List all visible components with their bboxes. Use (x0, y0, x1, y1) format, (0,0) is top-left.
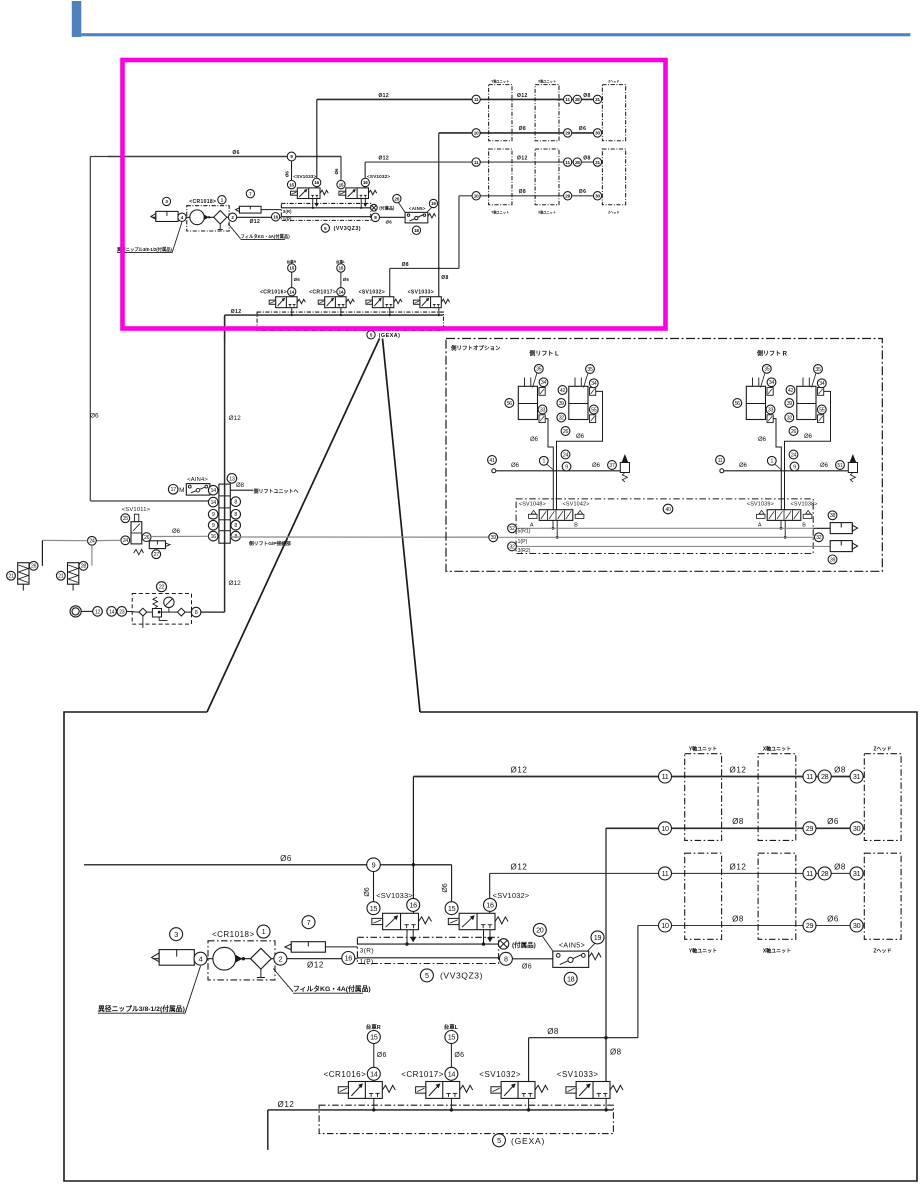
svg-text:41: 41 (489, 458, 495, 464)
valve stub to bus (373, 1098, 375, 1110)
wire: riser to bottom valve SV1032 (389, 268, 391, 296)
svg-text:Ø6: Ø6 (364, 887, 371, 896)
accessory plug X-circle (371, 204, 378, 211)
svg-text:Ø6: Ø6 (377, 1052, 387, 1059)
muffler upper lift (830, 523, 852, 534)
svg-text:35: 35 (815, 367, 821, 373)
node 34 cyl1 (767, 378, 776, 387)
svg-text:X軸ユニット: X軸ユニット (763, 948, 791, 955)
svg-text:Ø8: Ø8 (583, 93, 591, 99)
node 11 row1 left (659, 770, 672, 783)
wire: riser row4 down (458, 196, 460, 269)
node 39 cyl (557, 399, 566, 408)
svg-text:Y軸ユニット: Y軸ユニット (491, 209, 509, 214)
svg-text:31: 31 (595, 160, 600, 165)
wire inlet (496, 470, 621, 472)
svg-text:21: 21 (8, 574, 14, 580)
junction row2-riser x link (438, 267, 440, 269)
node 31 row3 (850, 867, 863, 880)
svg-text:15: 15 (370, 1033, 378, 1042)
svg-text:Ø8: Ø8 (402, 262, 409, 268)
node 20 (393, 194, 401, 202)
wire SV1011 to manifold 16 (151, 535, 208, 537)
svg-text:11: 11 (662, 869, 669, 878)
solenoid valve CR1016 bottom bank (276, 297, 297, 308)
wire: link y1037 Ø8 (529, 1037, 638, 1039)
node 3 (162, 197, 170, 205)
svg-text:24: 24 (563, 452, 569, 458)
svg-text:11: 11 (565, 160, 570, 165)
svg-text:9: 9 (793, 464, 796, 470)
solenoid valve SV1032 bottom bank (501, 1082, 535, 1099)
svg-text:31: 31 (595, 97, 600, 102)
wire node8 to AIN5 (380, 216, 406, 218)
node 14 (367, 1067, 380, 1080)
svg-text:33: 33 (768, 407, 774, 413)
svg-text:Ø8: Ø8 (834, 863, 846, 872)
node 26 cyl left (29, 561, 38, 570)
node 16 manifold P inlet (342, 952, 355, 965)
svg-text:Ø6: Ø6 (334, 168, 339, 175)
svg-text:Zヘッド: Zヘッド (873, 949, 891, 955)
node 14 manifold row1 (208, 485, 218, 495)
svg-text:30: 30 (595, 193, 600, 198)
manifold VV3QZ3 dash-dot box (281, 203, 370, 220)
node 28 row1 (818, 770, 831, 783)
svg-text:56: 56 (735, 401, 741, 407)
svg-text:11: 11 (718, 458, 723, 464)
node 52 rail A (508, 524, 517, 533)
valve stub to bus (605, 1098, 607, 1110)
pressure switch AIN4 (186, 484, 210, 496)
valve stub to bus (389, 308, 391, 315)
svg-text:Ø8: Ø8 (732, 915, 744, 924)
node 30 row4 (593, 192, 601, 200)
inlet port circle (492, 469, 496, 473)
svg-text:15: 15 (448, 1033, 456, 1042)
wire Ø8 to side lift unit (230, 489, 253, 491)
svg-text:37: 37 (609, 463, 615, 469)
svg-text:側リフト R: 側リフト R (756, 350, 788, 358)
svg-text:9: 9 (565, 464, 568, 470)
node 42 (786, 386, 795, 395)
svg-text:Ø6: Ø6 (739, 463, 748, 469)
node 35b (586, 365, 595, 374)
valve stub to bus (528, 1098, 530, 1110)
node 1 lift (767, 456, 776, 465)
X-axis unit box lower (758, 853, 796, 939)
svg-text:32: 32 (787, 415, 793, 421)
svg-text:台車L: 台車L (444, 1023, 459, 1031)
svg-text:14: 14 (339, 289, 344, 294)
svg-text:8: 8 (234, 523, 237, 529)
svg-text:28: 28 (81, 564, 87, 570)
wire inlet (724, 470, 849, 472)
node 26 wl (561, 427, 570, 436)
speed controller upper (590, 388, 596, 396)
svg-text:7: 7 (307, 918, 311, 927)
svg-text:33: 33 (540, 407, 546, 413)
wire work line B (557, 391, 603, 509)
svg-text:32: 32 (816, 535, 822, 541)
node 11 row3 right (803, 867, 816, 880)
svg-text:Ø12: Ø12 (378, 156, 389, 162)
wire work line A (773, 419, 781, 510)
svg-text:Ø6: Ø6 (280, 854, 292, 863)
node 30 row2 (593, 129, 601, 137)
solenoid valve CR1017 bottom bank (426, 1082, 460, 1099)
callout diagonal right (383, 339, 421, 713)
wire: link y1037 Ø8 (390, 267, 459, 269)
node 7 (302, 916, 315, 929)
wire: row1 Ø12 line (317, 98, 602, 101)
valve SV1033 port stubs (406, 930, 408, 944)
callout diagonal left (207, 339, 380, 713)
node 29 row2 (803, 822, 816, 835)
lift cylinder (569, 386, 588, 419)
node 40 center (663, 504, 673, 514)
svg-text:26: 26 (563, 429, 569, 435)
junction dot after regulator (208, 216, 210, 218)
svg-text:39: 39 (491, 535, 497, 541)
svg-text:フィルタKG・4A(付属品): フィルタKG・4A(付属品) (293, 984, 371, 993)
Z-head box upper (602, 85, 625, 141)
svg-text:16: 16 (314, 180, 319, 185)
check component node7 (291, 942, 325, 953)
node 41 (488, 456, 497, 465)
svg-text:13: 13 (229, 476, 235, 482)
wire: Ø12 bus line (268, 1109, 613, 1111)
svg-text:1(P): 1(P) (518, 539, 528, 545)
node 28 row1 (573, 95, 581, 103)
svg-text:10: 10 (661, 824, 669, 833)
svg-text:3(R): 3(R) (283, 209, 292, 214)
node 15 (367, 1031, 380, 1044)
svg-text:42: 42 (560, 388, 566, 394)
node 28 row3 (818, 867, 831, 880)
node 8 FRL outlet (191, 607, 201, 617)
regulator unit CR1018 box (208, 941, 275, 980)
valve SV1032 port stubs (483, 930, 485, 944)
svg-text:11: 11 (474, 97, 479, 102)
svg-text:5: 5 (497, 1136, 501, 1145)
wire: row3 Ø12 line (490, 872, 864, 874)
spring cylinder left (18, 563, 29, 585)
node 17 (168, 485, 178, 495)
svg-text:Ø6: Ø6 (827, 915, 839, 924)
svg-text:22: 22 (159, 585, 165, 591)
node 9 manifold row3 (208, 510, 218, 520)
node 20 (533, 923, 546, 936)
svg-text:25: 25 (123, 516, 129, 522)
speed controller lower (539, 415, 545, 423)
node 32 cyl (557, 413, 566, 422)
filter diamond (251, 948, 272, 969)
node 7 (246, 189, 254, 197)
wire node24 to cylinders (96, 539, 121, 541)
wire: row3 Ø12 line (365, 161, 602, 163)
svg-text:<SV1032>: <SV1032> (479, 1070, 521, 1079)
solenoid valve SV1032 on manifold (459, 913, 495, 929)
svg-text:側リフト L: 側リフト L (528, 350, 559, 358)
wire: row4 Ø8 line (459, 195, 602, 197)
Z-head box upper (864, 754, 901, 841)
solenoid valve CR1016 bottom bank (348, 1082, 382, 1099)
wire: riser row2 to bottom valve SV1033 (438, 133, 440, 297)
svg-text:19: 19 (431, 201, 436, 206)
valve stub to bus (291, 308, 293, 315)
Y-axis unit box upper (685, 754, 722, 841)
svg-text:24: 24 (791, 452, 797, 458)
svg-text:<SV1042>: <SV1042> (563, 502, 590, 508)
node 1 (218, 196, 226, 204)
svg-text:Ø6: Ø6 (530, 437, 539, 443)
svg-text:<CR1016>: <CR1016> (260, 290, 287, 296)
svg-text:24: 24 (89, 539, 95, 545)
wire stub to node 15 (340, 272, 342, 297)
wire: main air line (Ø6) horizontal (108, 155, 341, 157)
svg-text:15: 15 (339, 266, 344, 271)
speed controller upper (767, 388, 773, 396)
junction row2-riser x link (604, 1036, 607, 1039)
svg-text:56: 56 (507, 401, 513, 407)
node 30 row2 (850, 822, 863, 835)
header horizontal rule (81, 33, 910, 36)
wire: stub node9 to SV1033 port15 (291, 156, 293, 182)
svg-text:Ø6: Ø6 (579, 189, 587, 195)
svg-text:1: 1 (771, 459, 774, 465)
relief valve (848, 463, 857, 473)
svg-text:<AIN5>: <AIN5> (409, 206, 426, 211)
svg-text:A: A (758, 523, 762, 529)
inlet port circle (720, 469, 724, 473)
svg-text:Zヘッド: Zヘッド (608, 210, 619, 214)
wire: supply line y958.7 (152, 216, 282, 218)
node 21 left (7, 571, 16, 580)
junction dots on galleries (405, 942, 408, 945)
wire: stub down to SV1032 port15 (451, 865, 453, 905)
svg-text:15: 15 (448, 904, 456, 913)
X-axis unit box upper (535, 85, 559, 141)
node 9 on main line (287, 152, 296, 161)
node 55 cyl2 (589, 405, 598, 414)
svg-text:Ø8: Ø8 (583, 156, 591, 162)
node 4 (194, 952, 207, 965)
wire stub to node 15 (373, 1044, 375, 1082)
svg-text:32: 32 (509, 544, 515, 550)
FRL regulator (152, 609, 161, 618)
svg-text:Ø8: Ø8 (236, 483, 245, 489)
svg-text:18: 18 (414, 228, 419, 233)
svg-text:1: 1 (543, 459, 546, 465)
svg-text:30: 30 (853, 921, 861, 930)
svg-text:11: 11 (806, 772, 813, 781)
wire: row2 Ø8 line (439, 132, 602, 135)
svg-text:28: 28 (575, 160, 580, 165)
filter diamond (214, 211, 227, 224)
manifold P gallery line (281, 216, 375, 218)
header blue accent bar (72, 1, 82, 37)
node 26 wl (789, 427, 798, 436)
pressure regulator circle (190, 210, 204, 225)
svg-text:26: 26 (31, 564, 37, 570)
svg-text:<SV1032>: <SV1032> (359, 290, 385, 296)
spring cylinder right (68, 563, 79, 585)
node 34 cyl2 (817, 379, 826, 388)
svg-text:29: 29 (806, 921, 814, 930)
svg-text:X軸ユニット: X軸ユニット (538, 79, 556, 84)
node 3 (170, 928, 183, 941)
node 14 (288, 288, 296, 296)
node 34 cyl1 (539, 378, 548, 387)
svg-text:14: 14 (210, 488, 216, 494)
svg-text:9: 9 (212, 512, 215, 518)
svg-text:29: 29 (806, 824, 814, 833)
bottom detail box border (64, 712, 917, 1181)
svg-text:39: 39 (559, 401, 565, 407)
svg-text:38: 38 (830, 513, 836, 519)
node 8 manifold r3 (231, 510, 241, 520)
svg-text:11: 11 (474, 160, 479, 165)
node 22 (157, 582, 167, 592)
svg-text:<SV1033>: <SV1033> (376, 891, 413, 900)
svg-text:31: 31 (853, 869, 861, 878)
lift cylinder (518, 386, 537, 419)
svg-text:Ø12: Ø12 (229, 415, 242, 422)
node 32 rail B right (814, 533, 823, 542)
node 15 (337, 264, 345, 272)
pressure switch AIN5 (405, 212, 428, 223)
svg-text:20: 20 (536, 925, 544, 934)
svg-text:34: 34 (819, 381, 825, 387)
svg-text:Ø8: Ø8 (441, 275, 448, 281)
node 8 manifold r5 (231, 531, 241, 541)
svg-text:B: B (574, 523, 578, 529)
svg-text:35: 35 (536, 367, 542, 373)
svg-text:34: 34 (591, 381, 597, 387)
manifold R gallery line (281, 207, 370, 209)
junction main line x riser (316, 155, 318, 157)
svg-text:21: 21 (58, 574, 64, 580)
svg-text:34: 34 (541, 380, 547, 386)
svg-text:<SV1011>: <SV1011> (122, 507, 151, 513)
svg-text:4: 4 (199, 954, 203, 963)
regulator unit CR1018 box (187, 206, 229, 231)
wire: stub down to SV1032 port15 (340, 156, 342, 182)
node 27 (152, 550, 161, 559)
solenoid valve SV1033 bottom bank (576, 1082, 610, 1099)
svg-text:10: 10 (474, 193, 479, 198)
svg-text:Zヘッド: Zヘッド (608, 80, 619, 84)
svg-text:Ø12: Ø12 (517, 93, 528, 99)
node 16 manifold row5 (208, 531, 218, 541)
air source double circle (70, 606, 81, 617)
svg-text:Ø6: Ø6 (579, 126, 587, 132)
svg-text:(GEXA): (GEXA) (379, 333, 401, 339)
wire: riser to bottom valve SV1032 (528, 1038, 530, 1082)
speed controller lower (818, 415, 824, 423)
svg-text:5(R1): 5(R1) (518, 529, 531, 535)
node 55 cyl2 (817, 405, 826, 414)
node 15 SV1032 (445, 902, 458, 915)
wire: riser row3 to valve SV1032 port16 (489, 873, 491, 913)
solenoid valve SV1033 on manifold (383, 913, 419, 929)
wire drop to right cylinder (91, 545, 93, 566)
node 2 (274, 952, 287, 965)
node 32 rail C (508, 542, 517, 551)
wire to lower muffler (813, 545, 830, 547)
svg-text:3(R): 3(R) (360, 947, 374, 954)
svg-text:32: 32 (559, 415, 565, 421)
node 11 row1 left (472, 95, 480, 103)
svg-text:Ø8: Ø8 (547, 1027, 559, 1036)
svg-text:<SV1048>: <SV1048> (519, 502, 546, 508)
svg-text:Ø6: Ø6 (758, 437, 767, 443)
node 34 cyl2 (589, 379, 598, 388)
svg-text:Ø12: Ø12 (511, 766, 528, 775)
svg-text:<CR1017>: <CR1017> (309, 290, 336, 296)
node 14 (107, 607, 117, 617)
GEXA dash-dot box (319, 1105, 613, 1133)
svg-text:52: 52 (509, 526, 515, 532)
solenoid valve SV1032 on manifold (346, 188, 369, 199)
valve stub to bus (450, 1098, 452, 1110)
node 35b (814, 365, 823, 374)
svg-text:1(P): 1(P) (283, 216, 292, 221)
svg-text:(付属品): (付属品) (379, 205, 395, 211)
node 28 row3 (573, 158, 581, 166)
svg-text:<SV1033>: <SV1033> (293, 174, 316, 180)
svg-text:18: 18 (567, 974, 575, 983)
wire: riser x413 row1 to valve SV1033 port16 (412, 777, 414, 914)
node 18 (564, 972, 577, 985)
svg-text:16: 16 (486, 900, 494, 909)
svg-text:35: 35 (764, 367, 770, 373)
svg-text:9: 9 (212, 523, 215, 529)
node 13 manifold top (227, 474, 237, 484)
svg-text:Ø8: Ø8 (834, 766, 846, 775)
svg-text:35: 35 (587, 367, 593, 373)
svg-text:30: 30 (595, 131, 600, 136)
node 16 SV1033 (407, 898, 420, 911)
svg-text:11: 11 (565, 97, 570, 102)
node 1 (257, 925, 270, 938)
wire: stub node9 to SV1033 port15 (373, 865, 375, 905)
node 11 row1 right (564, 95, 572, 103)
rail C R2 (517, 545, 813, 547)
svg-text:Ø6: Ø6 (285, 171, 290, 178)
valve manifold sub dash-dot box (516, 499, 813, 554)
node 24 wl (561, 450, 570, 459)
wire drop to left cylinder (41, 540, 43, 565)
svg-text:Ø6: Ø6 (172, 529, 181, 535)
node 4 (178, 213, 186, 221)
svg-text:10: 10 (474, 131, 479, 136)
side lift option dash-dot box (446, 339, 882, 572)
node 37 (608, 461, 617, 470)
svg-text:14: 14 (109, 609, 115, 615)
svg-text:23: 23 (119, 609, 125, 615)
svg-text:11: 11 (806, 869, 813, 878)
svg-text:16: 16 (363, 180, 368, 185)
svg-text:Y軸ユニット: Y軸ユニット (491, 79, 509, 84)
svg-text:Ø12: Ø12 (249, 219, 260, 225)
node 24 junction (88, 536, 97, 545)
wire: riser x413 row1 to valve SV1033 port16 (316, 99, 318, 188)
svg-text:Ø6: Ø6 (576, 434, 585, 440)
svg-text:Ø6: Ø6 (90, 413, 99, 420)
svg-text:異径ニップル3/8-1/2(付属品): 異径ニップル3/8-1/2(付属品) (98, 1004, 185, 1013)
